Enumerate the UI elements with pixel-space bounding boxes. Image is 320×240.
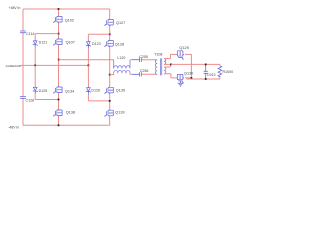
- diode D123: [86, 40, 91, 49]
- svg-text:-48V In: -48V In: [8, 125, 19, 129]
- inductor L120: [114, 60, 130, 75]
- transistor Q107: [53, 38, 62, 46]
- diode D121: [33, 39, 38, 48]
- capacitor C913: [204, 64, 208, 79]
- junction dot phase A tap: [58, 59, 60, 61]
- svg-text:Q102: Q102: [65, 19, 74, 23]
- junction dot lower-right branch: [109, 100, 111, 102]
- wire output line: [171, 63, 220, 65]
- capacitor C128: [20, 96, 26, 99]
- svg-text:Q127: Q127: [116, 21, 125, 25]
- junction dot lower-left branch: [58, 99, 60, 101]
- diode D125: [34, 65, 36, 85]
- transistor Q127: [104, 18, 113, 26]
- wire top link line: [130, 59, 157, 61]
- svg-text:L120: L120: [117, 56, 125, 60]
- svg-text:C114: C114: [26, 32, 34, 36]
- transistor Q129: [171, 53, 192, 55]
- wire phase A line: [59, 59, 114, 61]
- wire Q129 to rail: [190, 54, 192, 79]
- svg-text:T108: T108: [154, 52, 162, 56]
- wire upper-left branch: [35, 34, 58, 40]
- capacitor C114: [20, 30, 26, 33]
- junction dot L120 lower tap: [109, 74, 111, 76]
- svg-text:Q139: Q139: [115, 111, 124, 115]
- wire upper-right branch: [88, 34, 109, 40]
- svg-text:C255: C255: [139, 55, 148, 59]
- svg-text:D123: D123: [92, 42, 101, 46]
- svg-text:Q128: Q128: [115, 42, 124, 46]
- junction dot mid rail D121: [34, 65, 36, 67]
- capacitor C255: [132, 58, 142, 62]
- svg-text:AGREA/D8: AGREA/D8: [6, 64, 22, 68]
- junction dot left upper branch: [58, 33, 60, 35]
- transistor Q128: [104, 40, 113, 48]
- wire T108 secondary stubs: [164, 54, 171, 78]
- svg-text:+48V In: +48V In: [9, 6, 21, 10]
- resistor R1000: [219, 64, 221, 79]
- wire left input column: [22, 9, 24, 125]
- svg-text:Q134: Q134: [65, 89, 74, 93]
- svg-text:D121: D121: [39, 40, 48, 44]
- svg-text:D126: D126: [91, 88, 100, 92]
- svg-text:R1000: R1000: [223, 70, 234, 74]
- wire bottom rail: [23, 124, 110, 126]
- svg-text:Q129: Q129: [179, 46, 188, 50]
- svg-text:Q138: Q138: [66, 110, 75, 114]
- junction dot mid rail D123: [88, 65, 90, 67]
- transformer T108: [155, 58, 166, 75]
- wire output bottom rail: [186, 78, 220, 80]
- wire left leg: [58, 9, 60, 125]
- svg-text:Q135: Q135: [116, 88, 125, 92]
- svg-text:C128: C128: [26, 99, 35, 103]
- svg-text:Q107: Q107: [66, 41, 75, 45]
- transistor Q135: [104, 86, 113, 94]
- junction dot center tap: [170, 64, 172, 66]
- svg-text:Q130: Q130: [184, 71, 193, 75]
- wire L120 lower lead: [110, 74, 114, 76]
- junction dot top rail: [58, 8, 60, 10]
- wire mid rail: [21, 64, 89, 66]
- transistor Q138: [53, 109, 62, 117]
- svg-text:C256: C256: [140, 69, 149, 73]
- ground: [178, 81, 184, 86]
- capacitor C256: [132, 72, 142, 76]
- junction dot C913 bottom: [205, 78, 207, 80]
- junction dot right upper branch: [109, 33, 111, 35]
- transistor Q139: [104, 109, 113, 117]
- svg-text:C913: C913: [207, 73, 216, 77]
- wire right leg: [109, 9, 111, 125]
- wire bottom link line: [130, 73, 157, 75]
- junction dot bottom rail: [58, 124, 60, 126]
- junction dot C913 top: [205, 64, 207, 66]
- transistor Q130: [171, 77, 192, 79]
- wire top rail: [23, 8, 110, 10]
- diode D126: [87, 65, 89, 86]
- transistor Q134: [53, 86, 62, 94]
- junction dot Q130 output: [191, 77, 193, 79]
- transistor Q102: [53, 15, 62, 23]
- svg-text:D125: D125: [39, 89, 48, 93]
